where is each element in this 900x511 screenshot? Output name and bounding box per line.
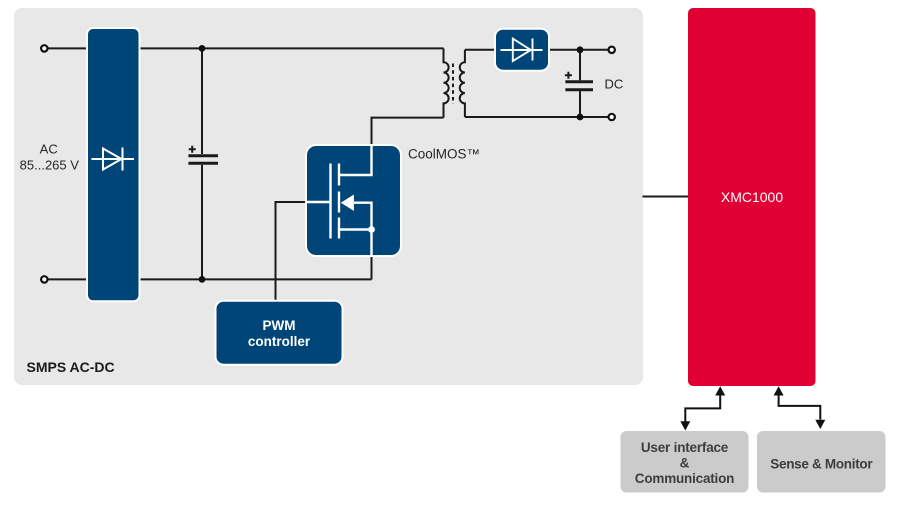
PWM controller [216, 301, 343, 365]
wire: top AC rail [44, 47, 443, 49]
output diode [495, 29, 549, 71]
CoolMOS MOSFET [306, 145, 401, 256]
transformer primary winding [444, 48, 449, 117]
transformer core [452, 64, 454, 105]
svg-text:85...265 V: 85...265 V [20, 158, 80, 173]
label AC 85...265 V [20, 142, 80, 173]
svg-text:User interface: User interface [641, 440, 729, 455]
bulk capacitor [188, 48, 218, 279]
wire: panel to XMC1000 [643, 196, 689, 198]
wire: secondary bottom rail [465, 116, 612, 118]
terminal: DC top [609, 47, 615, 53]
terminal: DC bottom [609, 114, 615, 120]
Sense & Monitor block [757, 431, 886, 493]
output capacitor [565, 50, 593, 117]
svg-text:DC: DC [605, 77, 624, 92]
terminal: AC bottom [41, 276, 47, 282]
svg-text:Communication: Communication [635, 471, 734, 486]
svg-text:Sense & Monitor: Sense & Monitor [770, 457, 873, 472]
XMC1000 block [688, 8, 816, 386]
bridge rectifier [87, 28, 140, 301]
node: output cap top junction [577, 46, 584, 53]
wire: diode to DC+ terminal [549, 49, 612, 51]
svg-text:CoolMOS™: CoolMOS™ [408, 147, 480, 162]
transformer secondary winding [460, 50, 465, 117]
arrow: XMC1000 to User interface [680, 386, 725, 430]
wire: bottom AC rail [44, 278, 371, 280]
node: output cap bottom junction [577, 114, 584, 121]
wire: source to bottom rail [371, 256, 373, 279]
wire: secondary top to diode [465, 49, 495, 51]
terminal: AC top [41, 45, 47, 51]
wire: gate from PWM controller [276, 202, 307, 301]
svg-text:SMPS AC-DC: SMPS AC-DC [27, 359, 115, 375]
node: bulk cap top junction [199, 45, 206, 52]
svg-text:&: & [680, 455, 690, 470]
svg-text:XMC1000: XMC1000 [721, 189, 783, 205]
arrow: XMC1000 to Sense & Monitor [774, 386, 826, 429]
svg-text:AC: AC [40, 142, 58, 157]
User interface & Communication block [621, 431, 749, 493]
SMPS AC-DC panel background [14, 8, 643, 385]
node: bulk cap bottom junction [199, 276, 206, 283]
svg-text:controller: controller [248, 334, 311, 349]
svg-text:PWM: PWM [263, 318, 296, 333]
wire: drain to transformer primary [372, 118, 444, 145]
